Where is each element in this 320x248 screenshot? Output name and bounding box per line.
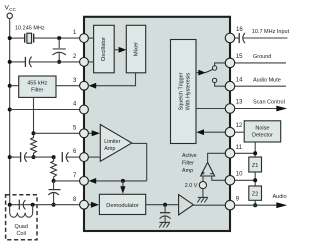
pin 12 [225, 123, 243, 137]
wire Z2 to pin 9 line [254, 200, 256, 205]
node Z chain top junction [253, 151, 257, 155]
svg-text:1: 1 [73, 30, 77, 36]
svg-text:Oscillator: Oscillator [101, 37, 107, 61]
wire pin 6 to limiter [88, 156, 100, 158]
wire audio output with arrow [234, 194, 287, 208]
svg-text:Audio Mute: Audio Mute [253, 77, 281, 83]
capacitor C1 pin1 to pin2 [52, 38, 66, 62]
svg-text:7: 7 [73, 173, 77, 179]
svg-text:10.245 MHz: 10.245 MHz [15, 26, 45, 32]
node rail pin2 junction [8, 60, 12, 64]
svg-text:Coil: Coil [16, 231, 25, 237]
svg-text:Amp: Amp [182, 168, 193, 174]
svg-text:Audio: Audio [273, 194, 287, 200]
svg-text:CC: CC [9, 7, 16, 12]
capacitor C7 demod output to ground [160, 205, 171, 223]
svg-text:6: 6 [73, 149, 77, 155]
pin 10 [225, 171, 243, 185]
wire pin 2 line [10, 61, 26, 63]
svg-text:12: 12 [236, 123, 243, 129]
wire noise detector to Z chain [254, 142, 256, 157]
node Z chain middle junction [253, 178, 257, 182]
switch: squelch output arm with arrow [196, 70, 213, 76]
pin 6 [73, 149, 88, 161]
svg-text:Z2: Z2 [252, 192, 258, 198]
pin 16 [225, 27, 243, 43]
wire pin 11 line [234, 152, 255, 154]
audio buffer amp [179, 195, 194, 215]
wire pin 8 line [10, 204, 80, 206]
pin 13 [225, 100, 243, 114]
capacitor C5 pin7 node to pin8 line [48, 181, 60, 205]
quad coil dashed box [6, 195, 37, 240]
svg-text:3: 3 [73, 78, 77, 84]
svg-text:5: 5 [73, 125, 77, 131]
wire rail to 455 filter [10, 85, 19, 87]
svg-text:14: 14 [236, 77, 243, 83]
svg-text:8: 8 [73, 197, 77, 203]
svg-text:9: 9 [236, 196, 240, 202]
wire limiter output [132, 143, 147, 181]
pin 4 [73, 102, 88, 114]
wire rail to capacitor C3 [10, 156, 21, 158]
capacitor C3 on pin 6 line [21, 152, 54, 162]
switch contact upper [212, 66, 216, 70]
node quad coil right junction [31, 203, 35, 207]
wire pin 10 line [234, 179, 255, 181]
arrow into demodulator [120, 181, 125, 194]
pin 11 [225, 145, 242, 158]
chassis ground below capacitor C7 [159, 222, 170, 227]
wire mixer output to pin 3 with arrow [89, 73, 136, 89]
pin 14 [225, 77, 243, 91]
wire pin 2 to oscillator [88, 61, 93, 63]
svg-text:455 kHz: 455 kHz [27, 81, 47, 87]
wire lower contact to pin 14 [215, 83, 226, 87]
svg-text:Filter: Filter [31, 88, 43, 94]
pin 3 [73, 78, 88, 90]
wire op-amp inverting input to pin 10 [212, 176, 226, 180]
impedance Z2 [249, 186, 262, 200]
wire pin 1 to oscillator [88, 37, 93, 39]
inductor L1 quad coil [10, 205, 33, 218]
pin 7 [73, 173, 88, 185]
svg-text:Scan Control: Scan Control [253, 100, 285, 106]
node quad coil left junction [8, 203, 12, 207]
wire pin 14 audio mute line [234, 77, 286, 86]
wire pin 12 to noise detector [234, 131, 244, 133]
pin 8 [73, 197, 88, 209]
capacitor C4 on pin 6 line [62, 152, 80, 162]
pin 2 [73, 54, 88, 66]
capacitor C6 inside quad coil [19, 200, 25, 210]
svg-text:Mixer: Mixer [133, 42, 139, 56]
svg-text:Active: Active [182, 153, 197, 159]
wire upper contact to pin 15 [215, 63, 226, 66]
pin 5 [73, 125, 88, 137]
wire Z1 to Z2 [254, 172, 256, 186]
455 kHz filter block FL1 [19, 76, 56, 97]
svg-text:Quad: Quad [14, 224, 27, 230]
svg-text:13: 13 [236, 100, 243, 106]
crystal Y1 [10, 33, 80, 43]
wire pin 13 scan control with arrow [234, 100, 287, 112]
wire op-amp output feedback to pin 11 [208, 153, 226, 163]
svg-text:2: 2 [73, 54, 77, 60]
active filter amp op-amp [201, 162, 215, 176]
svg-text:Demodulator: Demodulator [106, 203, 139, 209]
oscillator block [94, 25, 115, 73]
noise detector block [244, 121, 281, 142]
VCC terminal [5, 4, 17, 18]
svg-text:4: 4 [73, 102, 77, 108]
capacitor C2 on pin 2 line [25, 57, 79, 68]
svg-text:Filter: Filter [182, 161, 194, 167]
svg-text:10.7 MHz Input: 10.7 MHz Input [252, 29, 290, 35]
wire VCC rail [9, 19, 11, 205]
wire to pin 7 with arrow [89, 178, 147, 184]
node Z chain bottom junction [253, 203, 257, 207]
resistor R2 [51, 157, 57, 181]
wire demodulator output to buffer [146, 204, 179, 206]
node capacitor C1 bottom junction [57, 60, 61, 64]
node rail pin6 junction [8, 155, 12, 159]
pin 1 [73, 30, 88, 43]
svg-text:15: 15 [236, 54, 243, 60]
wire pin 16 with input capacitor C8 [234, 29, 289, 43]
wire pin 7 line [54, 180, 80, 182]
wire pin 15 ground line [234, 54, 286, 63]
node rail filter junction [8, 84, 12, 88]
pin 15 [225, 54, 243, 68]
node rail pin4 junction [8, 108, 12, 112]
impedance Z1 [249, 157, 262, 172]
node R1 bottom junction [32, 155, 36, 159]
switch contact lower [212, 78, 216, 82]
wire pin 5 to limiter with arrow [88, 130, 100, 136]
node pin5 junction [32, 131, 36, 135]
wire pin 12 to squelch with arrow [196, 129, 225, 135]
node C5 bottom junction [52, 203, 56, 207]
2.0 V reference node [185, 182, 207, 190]
svg-text:Z1: Z1 [252, 163, 258, 169]
svg-text:Detector: Detector [252, 133, 273, 139]
node capacitor C1 top junction [57, 36, 61, 40]
wire pin 5 line [34, 132, 80, 134]
wire filter bottom to pin 5 line [33, 97, 35, 133]
svg-text:2.0 V: 2.0 V [185, 183, 198, 189]
svg-text:16: 16 [236, 27, 243, 33]
quad coil label [14, 224, 27, 237]
mixer block [126, 25, 145, 73]
svg-text:11: 11 [236, 145, 243, 151]
wire filter to pin 3 [56, 85, 80, 87]
wire pin 4 line [10, 109, 80, 111]
IC body U1 [84, 17, 230, 231]
pin 9 [225, 196, 240, 210]
demodulator block [99, 194, 145, 214]
resistor R1 [31, 135, 37, 157]
node R2 top junction [52, 155, 56, 159]
node limiter output junction [121, 179, 125, 183]
active filter amp label [182, 153, 197, 174]
wire op-amp non-inverting input to 2.0V node [202, 176, 204, 182]
chassis ground under 2.0V node [197, 189, 207, 203]
limiter amp U1a [100, 125, 132, 162]
svg-text:Ground: Ground [253, 54, 271, 60]
wire buffer output to pin 9 [193, 204, 225, 206]
svg-text:Squelch Trigger: Squelch Trigger [179, 72, 185, 110]
node crystal junction [8, 36, 12, 40]
svg-text:Limiter: Limiter [104, 139, 120, 145]
squelch trigger block [171, 40, 197, 144]
wire oscillator to mixer with arrow [114, 47, 126, 53]
wire pin 8 to demodulator with arrow [88, 202, 99, 208]
svg-text:With Hysteresis: With Hysteresis [186, 72, 192, 110]
node pin7 junction [52, 179, 56, 183]
wire squelch to pin 13 [196, 108, 226, 110]
node demod output junction [163, 203, 167, 207]
svg-text:Amp: Amp [104, 146, 115, 152]
svg-text:10: 10 [236, 171, 243, 177]
svg-text:Noise: Noise [255, 126, 269, 132]
